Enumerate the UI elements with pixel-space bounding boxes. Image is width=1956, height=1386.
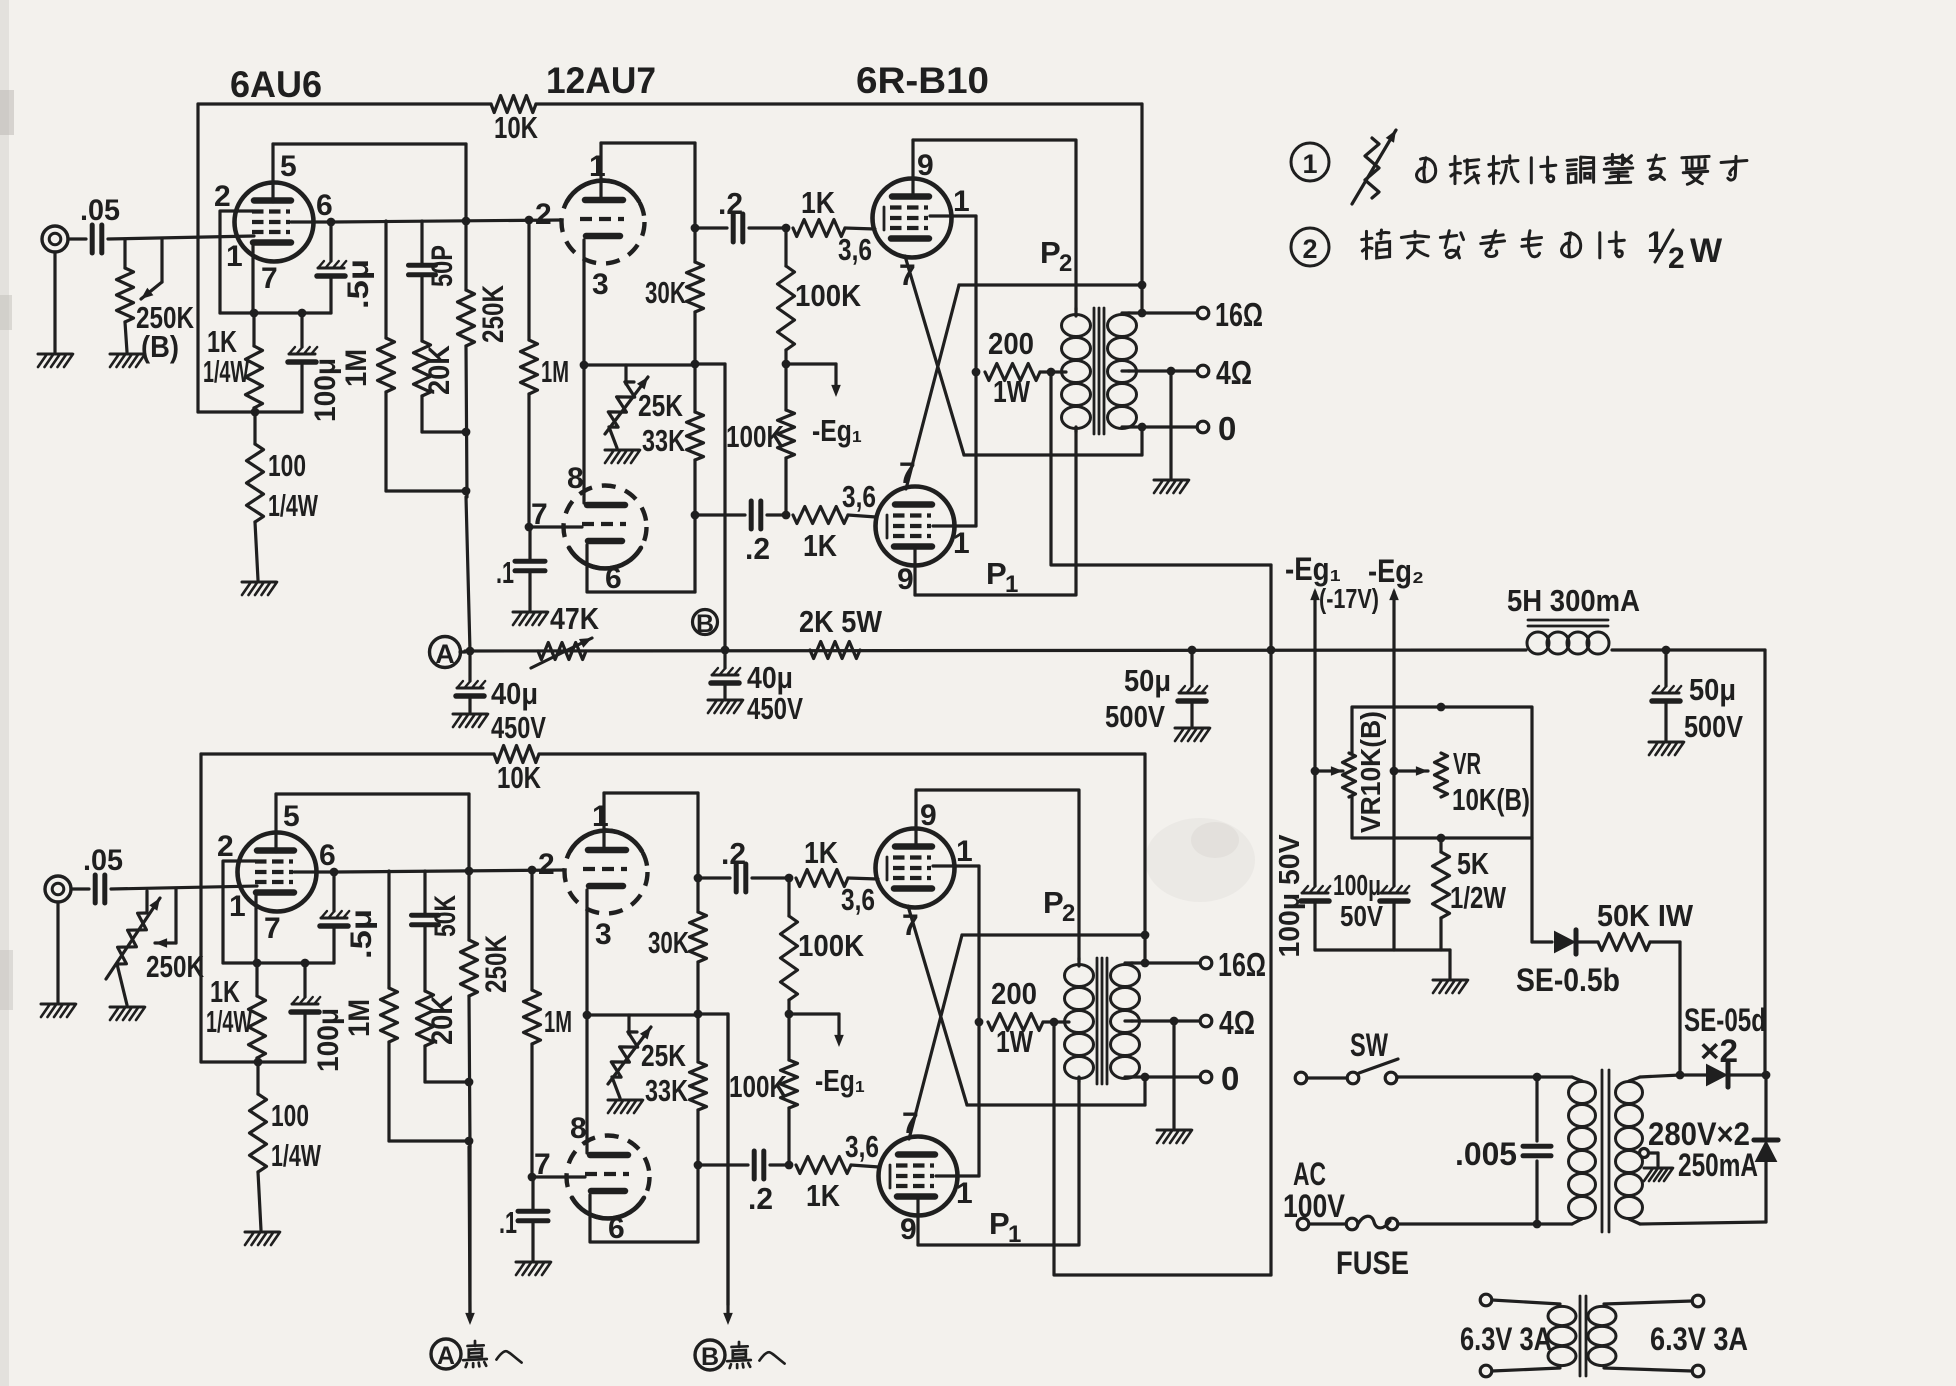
svg-text:33K: 33K bbox=[642, 423, 685, 458]
note 1 varres symbol bbox=[1365, 138, 1379, 198]
ground under 100 bbox=[242, 581, 276, 584]
wire secondary top 16ohm bbox=[1128, 311, 1196, 314]
wire plate row lower bbox=[964, 453, 1142, 456]
center tap bbox=[1640, 1149, 1649, 1158]
svg-text:16Ω: 16Ω bbox=[1218, 946, 1266, 983]
wire cathode junction row bbox=[587, 1013, 698, 1016]
pin 1 lead bbox=[930, 214, 976, 217]
beam tube V2e 6R-B10 bbox=[879, 1137, 958, 1216]
svg-text:20K: 20K bbox=[423, 345, 456, 395]
primary winding bbox=[1062, 315, 1091, 337]
wire plate row upper bbox=[962, 933, 1145, 936]
wire A line down bbox=[466, 497, 470, 651]
capacitor C10 40u450V at A bbox=[468, 651, 471, 681]
svg-text:4Ω: 4Ω bbox=[1219, 1004, 1255, 1041]
svg-text:1K: 1K bbox=[806, 1178, 841, 1213]
diode D3 SE-05d bbox=[1764, 1075, 1767, 1140]
svg-text:2: 2 bbox=[214, 180, 231, 213]
svg-text:.05: .05 bbox=[80, 194, 120, 227]
svg-text:B: B bbox=[701, 1343, 719, 1371]
junction bbox=[466, 647, 475, 656]
svg-text:450V: 450V bbox=[747, 691, 803, 726]
wire VR box bbox=[1352, 707, 1532, 838]
svg-text:1K: 1K bbox=[804, 835, 839, 870]
resistor R22 50K 1W bbox=[1576, 940, 1598, 943]
potentiometer VR2b 25K bbox=[627, 1015, 630, 1034]
wire P1 tie line bbox=[1269, 565, 1272, 1275]
pin 6 lead bbox=[587, 545, 695, 592]
wire secondary top bbox=[1640, 1075, 1680, 1077]
svg-text:250K: 250K bbox=[146, 949, 204, 984]
ground under 25K bbox=[612, 1077, 620, 1098]
svg-text:100μ 50V: 100μ 50V bbox=[1274, 834, 1306, 958]
resistor R1f 10K bbox=[198, 102, 491, 105]
svg-text:4Ω: 4Ω bbox=[1216, 354, 1252, 391]
svg-text:1W: 1W bbox=[993, 374, 1031, 409]
svg-text:50μ: 50μ bbox=[1124, 663, 1171, 698]
ground under .1 bbox=[513, 611, 547, 614]
svg-text:0: 0 bbox=[1218, 410, 1236, 447]
pin 5 lead bbox=[274, 794, 277, 852]
wire secondary bottom bbox=[1640, 1222, 1766, 1224]
ground secondary bbox=[1172, 1021, 1175, 1128]
capacitor C1b 100u bbox=[300, 313, 303, 347]
svg-text:SW: SW bbox=[1350, 1027, 1389, 1063]
svg-text:-Eg₁: -Eg₁ bbox=[812, 413, 862, 448]
svg-text:100μ: 100μ bbox=[312, 1008, 345, 1072]
triode V1c 12AU7b bbox=[564, 486, 647, 569]
junction bbox=[327, 218, 336, 227]
triode V2b 12AU7a bbox=[565, 831, 648, 914]
svg-text:P: P bbox=[1043, 885, 1064, 920]
wire plate row bbox=[333, 220, 561, 222]
wire cap to grid bbox=[111, 886, 257, 889]
heater winding right bbox=[1692, 1295, 1704, 1307]
resistor R1e 250K bbox=[464, 144, 467, 290]
wire plate row upper bbox=[959, 283, 1142, 286]
terminal 0 bbox=[1197, 421, 1209, 433]
wiper arrow bbox=[160, 239, 163, 282]
svg-text:6: 6 bbox=[605, 562, 622, 595]
svg-text:20K: 20K bbox=[426, 995, 459, 1045]
svg-text:40μ: 40μ bbox=[747, 660, 793, 695]
svg-text:6: 6 bbox=[608, 1212, 625, 1245]
pin 1 lead bbox=[933, 524, 976, 527]
junction bbox=[694, 1010, 703, 1019]
svg-text:1K: 1K bbox=[801, 185, 836, 220]
svg-text:2K 5W: 2K 5W bbox=[799, 604, 883, 639]
pin 1 lead bbox=[599, 143, 602, 199]
wire right rail bbox=[1763, 650, 1766, 1075]
wire box to diode bbox=[1530, 838, 1533, 942]
output transformer T1 core bbox=[1093, 308, 1096, 434]
ground under 100 bbox=[245, 1231, 279, 1234]
svg-text:3: 3 bbox=[595, 918, 612, 951]
wire bbox=[770, 1163, 789, 1166]
ground under pot bbox=[110, 1006, 144, 1009]
svg-text:50K IW: 50K IW bbox=[1597, 898, 1694, 933]
resistor R2e 250K bbox=[467, 794, 470, 940]
capacitor C1f .2 bbox=[731, 214, 736, 242]
fuse F1 bbox=[1297, 1218, 1309, 1230]
svg-text:40μ: 40μ bbox=[491, 676, 538, 711]
svg-text:1/4W: 1/4W bbox=[203, 354, 249, 389]
resistor R2l 100K bbox=[787, 1014, 790, 1060]
svg-text:200: 200 bbox=[991, 976, 1037, 1011]
junction bbox=[250, 309, 259, 318]
capacitor C1e .1 bbox=[528, 527, 531, 560]
resistor R1n 200 1W bbox=[985, 364, 1040, 381]
input jack J2 bbox=[45, 876, 71, 902]
svg-text:5: 5 bbox=[280, 150, 297, 183]
svg-text:1M: 1M bbox=[340, 349, 373, 387]
variable resistor 47K bbox=[538, 643, 586, 660]
resistor R2g 1M grid bbox=[530, 870, 533, 990]
pin 9 lead bbox=[913, 548, 916, 595]
junction bbox=[254, 1058, 263, 1067]
svg-text:FUSE: FUSE bbox=[1336, 1245, 1409, 1281]
svg-text:5H 300mA: 5H 300mA bbox=[1507, 583, 1640, 618]
wire .2 bottom bbox=[695, 513, 745, 516]
wire screen rail bbox=[977, 866, 980, 1176]
wire B line to arrow bbox=[726, 1014, 729, 1305]
wire secondary bottom 0 bbox=[1128, 425, 1196, 428]
resistor R1k 100K bbox=[784, 228, 787, 266]
capacitor C2e .1 bbox=[531, 1177, 534, 1210]
svg-text:250K: 250K bbox=[477, 285, 510, 343]
resistor R1b 100 1/4W bbox=[253, 412, 256, 444]
wire cathode junction row bbox=[584, 363, 695, 366]
wire .2 top bbox=[695, 226, 727, 229]
output transformer T2 core bbox=[1096, 958, 1099, 1084]
svg-text:6AU6: 6AU6 bbox=[230, 64, 322, 105]
wire cross a bbox=[908, 906, 967, 1105]
svg-text:25K: 25K bbox=[638, 388, 683, 423]
heater winding left bbox=[1480, 1294, 1492, 1306]
svg-text:.2: .2 bbox=[718, 186, 743, 221]
svg-text:9: 9 bbox=[900, 1213, 917, 1246]
resistor R1d 20K bbox=[414, 341, 431, 396]
svg-text:250K: 250K bbox=[480, 935, 513, 993]
wire box bottom bbox=[201, 1060, 305, 1063]
capacitor C1c .5u bbox=[329, 222, 332, 261]
svg-text:9: 9 bbox=[917, 149, 934, 182]
resistor R2k 100K bbox=[787, 878, 790, 916]
net -Eg1 line bbox=[1313, 592, 1316, 886]
svg-text:100K: 100K bbox=[729, 1069, 787, 1104]
svg-text:3,6: 3,6 bbox=[842, 479, 876, 514]
svg-text:1: 1 bbox=[956, 835, 973, 868]
wire plate row bbox=[336, 870, 564, 872]
pin 9 lead bbox=[914, 790, 917, 847]
pin 9 lead bbox=[916, 1198, 919, 1245]
wire secondary bottom 0 bbox=[1131, 1075, 1199, 1078]
input jack J1 bbox=[42, 226, 68, 252]
wire .2 top bbox=[698, 876, 730, 879]
svg-text:50P: 50P bbox=[426, 245, 459, 287]
primary winding bbox=[1065, 965, 1094, 987]
svg-text:100μ: 100μ bbox=[1333, 870, 1381, 902]
svg-text:.05: .05 bbox=[83, 844, 123, 877]
wire A line to arrow bbox=[468, 1143, 471, 1316]
wire cathode rail bbox=[220, 311, 331, 314]
ground under 25K bbox=[609, 427, 617, 448]
secondary winding bbox=[1108, 315, 1137, 337]
resistor R2f 10K bbox=[201, 752, 494, 755]
resistor R2m 1K grid stopper bbox=[796, 1157, 851, 1174]
svg-text:100: 100 bbox=[271, 1098, 309, 1133]
svg-text:100K: 100K bbox=[726, 419, 784, 454]
pin 1 lead bbox=[602, 793, 605, 849]
wire primary bottom bbox=[1399, 1222, 1572, 1225]
cathode lead bbox=[585, 890, 588, 1015]
wiper arrow VR3 bbox=[1311, 767, 1320, 776]
svg-text:P: P bbox=[986, 556, 1007, 591]
wire 1M to 250K bbox=[389, 1139, 469, 1142]
svg-text:100K: 100K bbox=[795, 278, 862, 313]
potentiometer VR4 10K(B) bbox=[1435, 753, 1448, 797]
svg-text:VR10K(B): VR10K(B) bbox=[1355, 711, 1386, 833]
note 1 circled digit bbox=[1291, 143, 1329, 181]
wire jack to coupling cap bbox=[71, 887, 89, 890]
wire to B line bbox=[698, 1012, 728, 1015]
wire B+ drop bbox=[1143, 754, 1146, 963]
capacitor C2d 50K bbox=[423, 871, 426, 914]
pin 5 lead bbox=[271, 144, 274, 202]
heater core bbox=[1579, 1296, 1582, 1376]
wire cross b bbox=[909, 935, 962, 1139]
pin 7 wire bbox=[533, 1175, 585, 1178]
svg-text:.005: .005 bbox=[1455, 1136, 1517, 1172]
svg-text:50K: 50K bbox=[429, 895, 462, 937]
pin 7 lead bbox=[251, 244, 254, 313]
svg-text:10K(B): 10K(B) bbox=[1452, 782, 1530, 817]
choke CH1 5H 300mA bbox=[1528, 619, 1608, 622]
ground bias bbox=[1433, 979, 1467, 982]
svg-text:5K: 5K bbox=[1457, 846, 1489, 881]
svg-text:A: A bbox=[435, 639, 455, 669]
svg-text:200: 200 bbox=[988, 326, 1034, 361]
potentiometer VR2 250K bbox=[117, 913, 147, 964]
wire pin5 top rail bbox=[276, 792, 469, 795]
wire pin9 to primary bottom bbox=[915, 430, 1076, 595]
scan smudge bbox=[1145, 818, 1255, 902]
junction bbox=[691, 360, 700, 369]
svg-text:450V: 450V bbox=[491, 710, 546, 745]
svg-text:A: A bbox=[437, 1342, 455, 1370]
svg-text:1: 1 bbox=[226, 240, 243, 273]
pin 2 lead bbox=[220, 211, 252, 313]
node B-to label bbox=[695, 1340, 725, 1370]
capacitor C11 40u450V at B bbox=[723, 650, 726, 668]
svg-text:6R-B10: 6R-B10 bbox=[856, 60, 989, 101]
svg-text:25K: 25K bbox=[641, 1038, 686, 1073]
svg-text:(B): (B) bbox=[141, 329, 179, 364]
junction bbox=[1533, 1073, 1542, 1082]
wire cathode rail bbox=[223, 961, 334, 964]
svg-text:1/4W: 1/4W bbox=[271, 1138, 322, 1173]
svg-text:100: 100 bbox=[268, 448, 306, 483]
wire B line bbox=[723, 364, 726, 647]
capacitor C13 50u500V right bbox=[1664, 650, 1667, 686]
wire bbox=[749, 226, 786, 229]
resistor R1m 1K grid stopper bbox=[793, 507, 848, 524]
svg-text:2: 2 bbox=[538, 848, 555, 881]
svg-text:W: W bbox=[1690, 232, 1723, 270]
wire box left bbox=[196, 104, 199, 412]
svg-text:1: 1 bbox=[953, 185, 970, 218]
wire plate row lower bbox=[967, 1103, 1145, 1106]
wire 33K down bbox=[693, 460, 696, 592]
svg-text:7: 7 bbox=[264, 912, 281, 945]
svg-text:2: 2 bbox=[217, 830, 234, 863]
wire .2 bottom bbox=[698, 1163, 748, 1166]
terminal 4ohm bbox=[1200, 1015, 1212, 1027]
wire screen rail bbox=[974, 216, 977, 526]
svg-text:8: 8 bbox=[570, 1112, 587, 1145]
scanner edge shading bbox=[0, 0, 9, 1386]
svg-text:2: 2 bbox=[1059, 250, 1072, 277]
svg-text:×2: ×2 bbox=[1700, 1033, 1738, 1069]
svg-text:100K: 100K bbox=[798, 928, 865, 963]
svg-text:2: 2 bbox=[1302, 234, 1317, 264]
svg-text:1K: 1K bbox=[803, 528, 838, 563]
ground under .1 bbox=[516, 1261, 550, 1264]
svg-text:B: B bbox=[696, 610, 714, 638]
svg-text:10K: 10K bbox=[494, 110, 538, 145]
wire secondary mid 4ohm bbox=[1128, 369, 1196, 372]
node B circle bbox=[693, 610, 718, 635]
capacitor C14 .005 bbox=[1535, 1077, 1538, 1141]
beam tube V1e 6R-B10 bbox=[876, 487, 955, 566]
wire B+ drop bbox=[1140, 104, 1143, 313]
svg-text:.2: .2 bbox=[745, 531, 770, 566]
wire 33K down bbox=[696, 1110, 699, 1242]
potentiometer VR3 10K(B) bbox=[1343, 753, 1356, 797]
svg-text:3,6: 3,6 bbox=[841, 882, 875, 917]
wire primary top bbox=[1398, 1075, 1572, 1078]
terminal 0 bbox=[1200, 1071, 1212, 1083]
svg-text:1M: 1M bbox=[544, 1004, 572, 1039]
pentode tube V2a 6AU6 bbox=[238, 833, 317, 912]
secondary winding bbox=[1616, 1082, 1643, 1104]
svg-text:33K: 33K bbox=[645, 1073, 688, 1108]
potentiometer VR1b 25K bbox=[624, 365, 627, 384]
ground under jack bbox=[56, 902, 59, 1002]
beam tube V2d 6R-B10 bbox=[876, 829, 955, 908]
svg-text:6.3V 3A: 6.3V 3A bbox=[1650, 1321, 1748, 1357]
resistor R2i 30K bbox=[696, 793, 699, 912]
wire bbox=[752, 876, 789, 879]
capacitor C2b 100u bbox=[303, 963, 306, 997]
wire pin1 to 30K bbox=[601, 141, 695, 144]
wire cross a bbox=[905, 256, 964, 455]
triode V2c 12AU7b bbox=[567, 1136, 650, 1219]
svg-text:1W: 1W bbox=[996, 1024, 1034, 1059]
pin 7 wire bbox=[530, 525, 582, 528]
resistor R2j 1K grid stopper bbox=[796, 870, 848, 887]
resistor R20 2K 5W bbox=[810, 642, 860, 659]
junction bbox=[253, 959, 262, 968]
wire A line down bbox=[469, 1147, 470, 1316]
svg-text:500V: 500V bbox=[1105, 699, 1165, 734]
svg-text:1M: 1M bbox=[541, 354, 569, 389]
pin 6 lead bbox=[590, 1195, 698, 1242]
capacitor C1g .2 bbox=[749, 501, 754, 529]
svg-text:0: 0 bbox=[1221, 1060, 1239, 1097]
pin 6 lead bbox=[294, 870, 336, 873]
pin 1 lead bbox=[936, 1174, 979, 1177]
wiper arrow VR4 bbox=[1390, 767, 1399, 776]
svg-text:2: 2 bbox=[1062, 900, 1075, 927]
svg-text:7: 7 bbox=[534, 1148, 551, 1181]
resistor R2a 1K 1/4W bbox=[255, 963, 258, 996]
resistor R1j 1K grid stopper bbox=[793, 220, 845, 237]
wire 1M to 250K bbox=[386, 489, 466, 492]
svg-text:6.3V 3A: 6.3V 3A bbox=[1460, 1321, 1552, 1357]
svg-text:1: 1 bbox=[953, 527, 970, 560]
svg-text:-Eg₁: -Eg₁ bbox=[1285, 551, 1341, 587]
svg-text:7: 7 bbox=[531, 498, 548, 531]
svg-text:500V: 500V bbox=[1684, 709, 1743, 744]
svg-text:50V: 50V bbox=[1340, 901, 1384, 933]
switch SW bbox=[1295, 1072, 1307, 1084]
resistor R1g 1M grid bbox=[527, 220, 530, 340]
svg-text:2: 2 bbox=[1668, 242, 1685, 275]
wire 50K down bbox=[1678, 942, 1681, 1075]
wire cross b bbox=[906, 285, 959, 489]
svg-text:2: 2 bbox=[535, 198, 552, 231]
wire box bottom bbox=[198, 410, 302, 413]
wire pin9 to primary bottom bbox=[918, 1080, 1079, 1245]
svg-text:3,6: 3,6 bbox=[838, 232, 872, 267]
wire 20K to 250K bbox=[425, 1080, 469, 1083]
node A-to label bbox=[431, 1339, 461, 1369]
resistor R21 5K 1/2W bbox=[1439, 838, 1442, 852]
svg-text:P: P bbox=[1040, 235, 1061, 270]
svg-text:.5μ: .5μ bbox=[342, 259, 375, 309]
wire jack to coupling cap bbox=[68, 237, 86, 240]
note 2 circled digit bbox=[1291, 228, 1329, 266]
svg-text:1: 1 bbox=[592, 800, 609, 833]
pin 8 lead bbox=[582, 365, 585, 503]
ground under jack bbox=[53, 252, 56, 352]
wire pin5 top rail bbox=[273, 142, 466, 145]
svg-text:(-17V): (-17V) bbox=[1319, 583, 1379, 614]
wire bias bottom bbox=[1315, 948, 1450, 951]
ground secondary bbox=[1169, 371, 1172, 478]
svg-text:8: 8 bbox=[567, 462, 584, 495]
capacitor C1d 50P bbox=[420, 221, 423, 264]
capacitor C2c .5u bbox=[332, 872, 335, 911]
svg-text:1/4W: 1/4W bbox=[268, 488, 319, 523]
svg-text:1/4W: 1/4W bbox=[206, 1004, 252, 1039]
power transformer T3 core bbox=[1601, 1070, 1604, 1232]
pin 1 lead bbox=[933, 864, 979, 867]
triode V1b 12AU7a bbox=[562, 181, 645, 264]
resistor R1c 1M bbox=[384, 221, 387, 338]
svg-text:SE-0.5b: SE-0.5b bbox=[1516, 962, 1620, 998]
wire 20K to 250K bbox=[422, 430, 466, 433]
pin 2 lead bbox=[223, 861, 255, 963]
note 2 text bbox=[1362, 230, 1390, 259]
resistor R1l 100K bbox=[784, 364, 787, 410]
wire P2 box bbox=[916, 790, 1079, 960]
svg-text:.5μ: .5μ bbox=[345, 909, 378, 959]
svg-text:16Ω: 16Ω bbox=[1215, 296, 1263, 333]
pin 9 lead bbox=[911, 140, 914, 197]
svg-text:9: 9 bbox=[920, 799, 937, 832]
